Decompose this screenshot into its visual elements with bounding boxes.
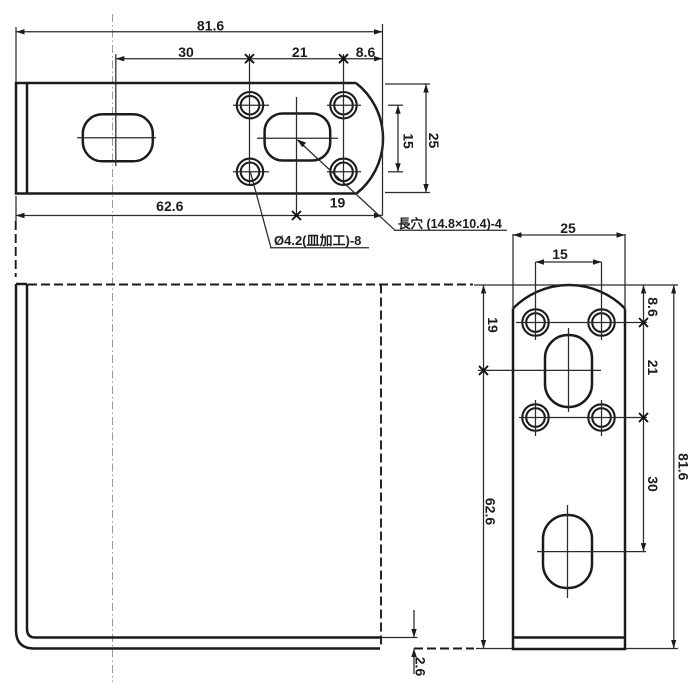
upper slot (obround) — [545, 335, 592, 407]
side hole top-right — [588, 309, 614, 335]
side hole top-left — [522, 309, 548, 335]
lower slot vertical centerline — [567, 505, 569, 598]
hole column ticks lower — [535, 400, 537, 436]
upper slot horizontal centerline / extension — [478, 369, 601, 371]
hole row centerline lower — [519, 417, 647, 419]
dimension 81.6 top — [16, 17, 383, 82]
upper slot vertical centerline — [568, 328, 570, 412]
dimension 19 / 62.6 left of side view — [479, 285, 501, 649]
hole top-right Ø4.2 — [327, 92, 361, 118]
left slot vertical extension — [115, 54, 117, 166]
top view bend line (inner vertical) — [26, 83, 29, 194]
svg-text:21: 21 — [645, 360, 661, 376]
central slot horizontal centerline — [257, 137, 338, 139]
dashed hidden continuation left edge — [15, 221, 17, 277]
svg-text:62.6: 62.6 — [483, 498, 499, 525]
lower slot horizontal centerline / extension — [537, 551, 646, 553]
hole row centerline upper — [516, 322, 647, 324]
inner bottom extension to 2.6 dim — [380, 637, 418, 639]
dimension 8.6 / 21 / 30 right of side view — [639, 285, 661, 552]
central slot vertical centerline / extension — [296, 97, 298, 216]
hole column extension lines — [249, 54, 251, 186]
leader 長穴(14.8×10.4)-4 — [297, 139, 507, 231]
dimension 62.6 / 19 bottom of top view — [16, 195, 383, 222]
svg-text:Ø4.2(皿加工)-8: Ø4.2(皿加工)-8 — [274, 233, 361, 248]
dimension 30 / 21 / 8.6 — [116, 44, 383, 63]
dimension 2.6 — [411, 610, 428, 676]
hole bottom-left Ø4.2 — [233, 159, 269, 185]
side view bend line at bottom — [513, 636, 625, 639]
svg-text:25: 25 — [560, 220, 576, 236]
front view top cap — [16, 283, 27, 286]
svg-text:8.6: 8.6 — [356, 44, 376, 60]
svg-text:19: 19 — [330, 195, 346, 211]
dimension 15 right of holes — [388, 105, 417, 172]
hole bottom-right Ø4.2 — [327, 159, 361, 185]
side hole bottom-right — [588, 404, 614, 430]
svg-text:81.6: 81.6 — [197, 17, 224, 33]
front view inner profile — [27, 284, 380, 638]
svg-text:15: 15 — [401, 133, 417, 149]
hole top-left Ø4.2 — [233, 92, 269, 118]
centerline chain vertical x=112.5 — [112, 14, 114, 682]
dimension 25 right — [385, 84, 442, 193]
hidden right edge dashed — [380, 285, 382, 649]
left slot horizontal centerline — [77, 137, 156, 139]
central slot (obround 14.8x10.4) — [265, 114, 331, 161]
svg-text:25: 25 — [426, 133, 442, 149]
svg-text:30: 30 — [645, 476, 661, 492]
svg-text:21: 21 — [292, 44, 308, 60]
svg-text:長穴 (14.8×10.4)-4: 長穴 (14.8×10.4)-4 — [398, 216, 502, 231]
svg-text:19: 19 — [485, 317, 501, 333]
top view outline with right arc end — [16, 83, 383, 194]
right extension line x=382.5 — [382, 24, 384, 216]
svg-text:15: 15 — [552, 246, 568, 262]
dimension 25 top of side view — [513, 220, 625, 308]
dimension 81.6 right of side view — [474, 285, 691, 649]
dimension 15 of side view — [536, 246, 602, 340]
svg-text:62.6: 62.6 — [156, 198, 183, 214]
svg-text:81.6: 81.6 — [675, 453, 691, 480]
front view outer profile — [16, 284, 380, 649]
svg-text:30: 30 — [178, 44, 194, 60]
side hole bottom-left — [522, 404, 548, 430]
svg-text:8.6: 8.6 — [645, 297, 661, 317]
leader Ø4.2(皿加工)-8 — [250, 172, 369, 248]
hidden bottom edge dashed — [414, 648, 474, 650]
lower slot (obround) — [543, 515, 592, 588]
left slot (obround) — [83, 114, 153, 161]
hidden top edge dashed — [28, 284, 473, 286]
side view outline with top arc — [513, 285, 625, 649]
svg-text:2.6: 2.6 — [413, 657, 429, 677]
